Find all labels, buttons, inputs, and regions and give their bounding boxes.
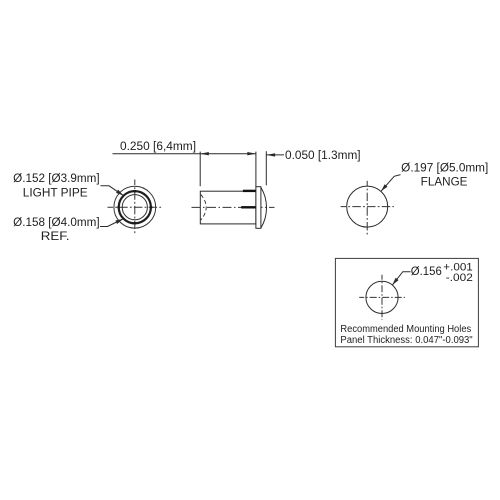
extension line 1 (body left) [199, 152, 201, 187]
svg-text:Panel Thickness: 0.047"-0.093": Panel Thickness: 0.047"-0.093" [340, 335, 473, 346]
svg-text:REF.: REF. [41, 231, 70, 243]
svg-text:FLANGE: FLANGE [421, 177, 468, 189]
svg-text:Ø.156: Ø.156 [411, 266, 442, 278]
leader to Ø.152 [101, 186, 124, 196]
dimension line 0.250 [113, 153, 256, 155]
svg-text:-.002: -.002 [446, 272, 473, 284]
leader to hole circle [393, 272, 411, 285]
thick segment top [243, 190, 256, 192]
arrow at ext1 pointing left [200, 152, 209, 155]
left view horizontal centerline [108, 206, 162, 208]
ref circle Ø.158 / light pipe circle Ø.152 (nearly coincident, thick ring) [119, 191, 151, 223]
body rectangle [200, 191, 256, 224]
inner circle [122, 195, 147, 220]
flange circle [347, 186, 388, 227]
leader to Ø.158 [100, 219, 123, 227]
arrow at ext2 pointing right [247, 152, 256, 155]
svg-text:0.050 [1.3mm]: 0.050 [1.3mm] [285, 150, 361, 162]
mounting hole circle [366, 281, 398, 313]
leader line 0.050 [267, 154, 285, 156]
leader to flange circle [381, 175, 400, 191]
thick segment center [241, 206, 255, 208]
svg-text:Recommended Mounting Holes: Recommended Mounting Holes [340, 324, 471, 335]
left view vertical centerline [134, 180, 136, 235]
svg-text:LIGHT PIPE: LIGHT PIPE [23, 187, 88, 199]
right view vertical centerline [366, 181, 368, 235]
dome arc [261, 187, 267, 228]
arrow at ext3 pointing left [267, 153, 276, 156]
box circle vertical centerline [381, 275, 383, 320]
right view horizontal centerline [341, 206, 394, 208]
svg-text:0.250 [6,4mm]: 0.250 [6,4mm] [120, 141, 196, 153]
hidden dome arc (dashed) [201, 195, 206, 220]
extension line 2 (flange left) [255, 152, 257, 187]
flange rectangle [256, 187, 261, 229]
svg-text:Ø.197 [Ø5.0mm]: Ø.197 [Ø5.0mm] [401, 163, 488, 175]
box circle horizontal centerline [359, 296, 405, 298]
centerline dots on ring [117, 190, 152, 225]
side view centerline [192, 206, 275, 208]
svg-text:Ø.158 [Ø4.0mm]: Ø.158 [Ø4.0mm] [13, 217, 99, 229]
box border [335, 258, 478, 346]
svg-text:Ø.152 [Ø3.9mm]: Ø.152 [Ø3.9mm] [13, 173, 99, 185]
outer flange circle Ø.197 [114, 186, 156, 228]
extension line 3 (dome apex) [265, 151, 267, 185]
